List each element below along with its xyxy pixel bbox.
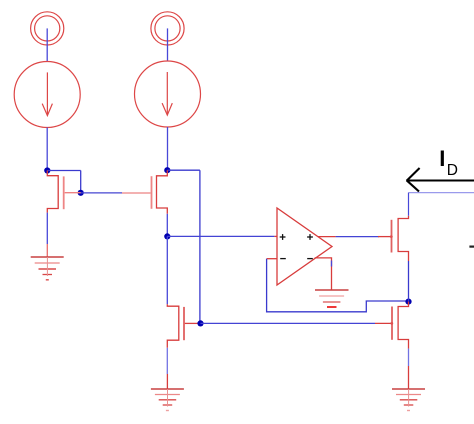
transistor Q5 (375, 302, 409, 349)
transistor Q4 (378, 216, 409, 261)
op-amp plus output wire (318, 236, 379, 238)
wire P1 to I1 (46, 28, 48, 62)
op-amp minus input mark (280, 258, 286, 260)
wire Q1 gate to Q2 gate (81, 192, 122, 194)
label terminal dash (469, 246, 474, 248)
current source I1 (14, 62, 80, 128)
wire sense node down to Q3 drain (166, 236, 168, 304)
current source I2 (135, 61, 201, 127)
op-amp minus output mark (307, 258, 313, 260)
node dot Q1 drain (44, 167, 50, 173)
ground G2 (151, 374, 184, 411)
ground G1 (31, 244, 64, 280)
wire sense node to op-amp plus input (167, 235, 274, 237)
op-amp A1 (277, 208, 332, 285)
port P2 (151, 12, 184, 45)
label I_D (439, 146, 458, 179)
wire Q1 source down (46, 213, 48, 244)
node dot Q1 gate (78, 190, 84, 196)
wire Q5 source down (408, 349, 410, 366)
op-amp plus input stub (274, 235, 277, 237)
op-amp plus input mark (280, 234, 286, 240)
ground G4 (392, 366, 425, 411)
node dot cascode gate (197, 320, 203, 326)
node dot Q2 drain (164, 167, 170, 173)
ground G3 (315, 290, 349, 307)
wire Q4 source to node (408, 261, 410, 302)
wire Q2 drain to cascode column (167, 170, 200, 323)
transistor Q3 (167, 304, 198, 348)
transistor Q1 (47, 171, 80, 213)
node dot sense (164, 233, 170, 239)
wire Q3 source down (166, 348, 168, 374)
wire I1 to Q1 drain (46, 128, 48, 171)
op-amp plus output mark (307, 234, 313, 240)
wire P2 to I2 (167, 28, 169, 61)
wire top right drain (409, 193, 474, 216)
svg-text:D: D (447, 162, 458, 179)
wire Q2 source to sense node (166, 214, 168, 237)
wire feedback loop (267, 259, 406, 312)
op-amp minus output to ground (315, 258, 332, 290)
current arrow I_D (407, 168, 474, 192)
wire Q1 drain to gate corner (47, 171, 80, 193)
wire cascode node to output gates (201, 322, 376, 324)
wire I2 to Q2 drain (167, 127, 169, 170)
port P1 (31, 12, 64, 45)
transistor Q2 (122, 170, 167, 214)
svg-text:I: I (439, 146, 445, 171)
node dot Q4 source / Q5 drain (405, 299, 411, 305)
op-amp minus input stub (267, 258, 278, 260)
